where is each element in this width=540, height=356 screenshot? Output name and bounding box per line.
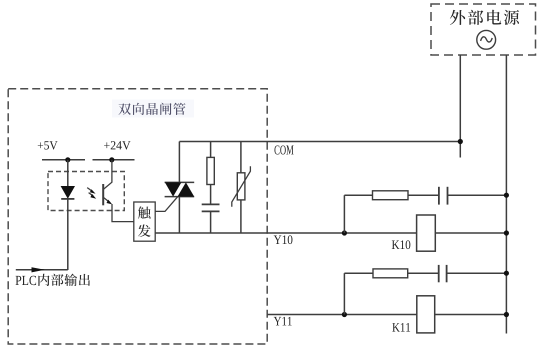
varistor RV1 <box>240 142 242 173</box>
label Y11 <box>274 317 281 326</box>
wire: gate from trigger <box>155 197 178 212</box>
node: Y11-bus junction <box>504 312 509 317</box>
node: Y11 junction <box>342 312 347 317</box>
wire: Y11 snubber branch up <box>343 273 345 314</box>
wire: power left terminal down to COM <box>459 55 461 158</box>
label Y10 <box>274 235 282 244</box>
wire: triac top to COM line <box>178 142 180 183</box>
wire: branch to R2 <box>344 194 372 196</box>
wire: Y10 relay to bus <box>435 232 506 234</box>
wire: power right terminal down right side <box>505 55 507 334</box>
wire: Y11 line left of relay <box>267 314 416 316</box>
relay coil K11 <box>417 296 435 333</box>
resistor R3 <box>373 269 408 278</box>
wire: +24V rail <box>93 159 135 161</box>
resistor R2 <box>373 191 409 200</box>
node: Y11 branch-bus junction <box>504 271 509 276</box>
wire: Y10 snubber branch up <box>343 195 345 233</box>
wire: emitter to trigger box <box>112 204 134 222</box>
wire: C3 to right bus <box>447 272 507 274</box>
wire: branch to R3 <box>344 272 373 274</box>
LED D1 <box>61 186 75 199</box>
wire: PLC internal output with arrow <box>16 269 68 271</box>
PLC output module dashed box <box>8 89 267 344</box>
wire: R3 to C3 <box>408 272 439 274</box>
wire: Y11 relay to bus <box>435 314 507 316</box>
trigger box 触发 <box>134 202 155 241</box>
node: COM junction <box>458 139 463 144</box>
label K10 <box>392 240 400 249</box>
label PLC内部输出 <box>16 276 22 285</box>
wire: Y10 line left of relay <box>155 232 416 234</box>
label COM <box>274 145 279 154</box>
node: Y10 junction <box>342 230 347 235</box>
wire: C2 to right bus <box>448 194 507 196</box>
label +24V <box>104 142 110 148</box>
label +5V <box>38 142 43 148</box>
node: +24V junction <box>109 157 114 162</box>
optocoupler U1 dashed box <box>48 172 124 211</box>
label 外部电源 <box>450 10 465 25</box>
phototransistor Q1 <box>103 160 112 206</box>
wire: triac bottom to Y10 line <box>178 197 180 233</box>
triac V1 <box>165 182 195 196</box>
light arrows <box>87 188 96 199</box>
wire: COM line <box>179 141 460 143</box>
node: branch-bus junction <box>504 193 509 198</box>
wire: LED anode <box>67 160 69 186</box>
title 双向晶闸管 <box>112 100 194 118</box>
external power supply box 外部电源 <box>431 4 536 55</box>
wire: +5V rail <box>42 159 85 161</box>
node: Y10-bus junction <box>504 230 509 235</box>
wire: R2 to C2 <box>408 194 439 196</box>
relay coil K10 <box>417 215 436 251</box>
capacitor C1 <box>202 203 220 205</box>
label K11 <box>392 323 399 332</box>
wire: LED cathode down <box>67 199 69 270</box>
capacitor C3 <box>438 265 440 282</box>
resistor R1 <box>210 142 212 158</box>
capacitor C2 <box>438 187 440 205</box>
AC source symbol <box>477 30 496 49</box>
node: +5V junction <box>65 157 70 162</box>
